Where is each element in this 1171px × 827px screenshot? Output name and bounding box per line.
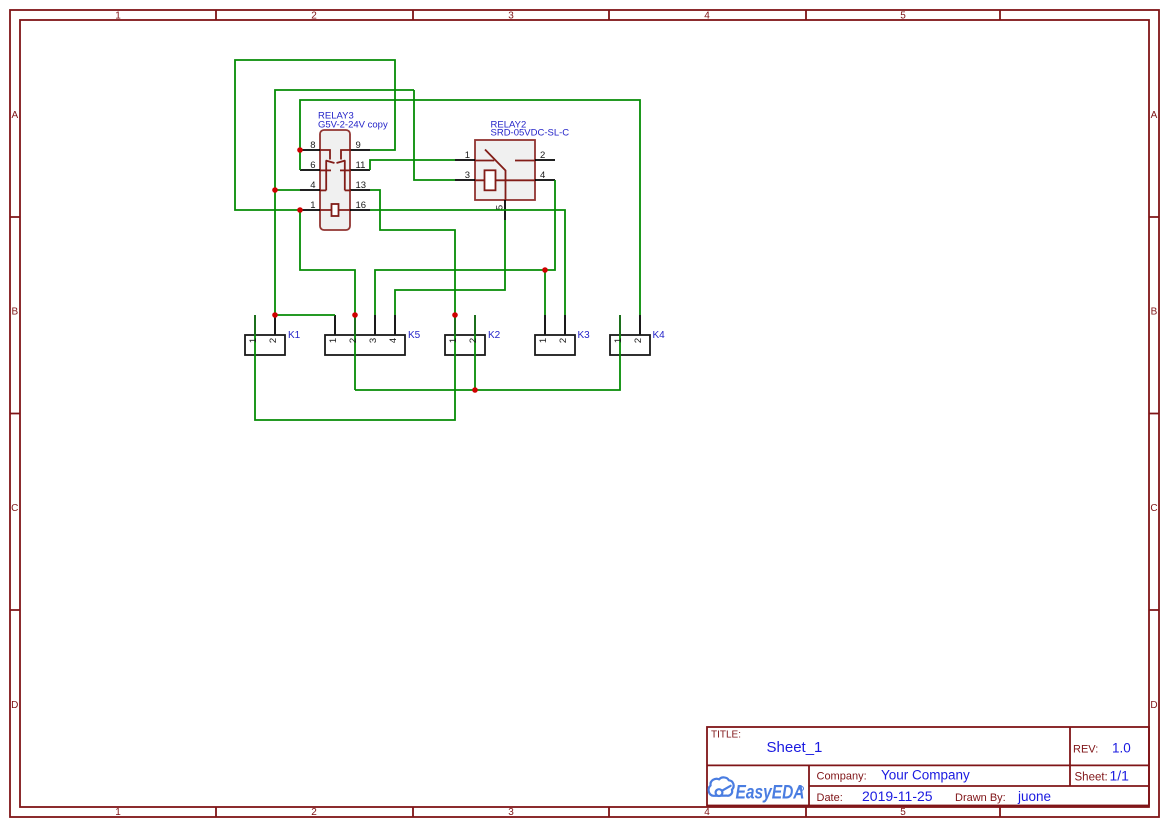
RELAY3 pin 11 bbox=[350, 169, 370, 171]
relay RELAY2 body bbox=[475, 140, 535, 200]
RELAY2 pin 3 bbox=[455, 179, 475, 181]
svg-text:B: B bbox=[1151, 307, 1158, 318]
svg-text:K1: K1 bbox=[288, 330, 301, 341]
RELAY3 pin numbers bbox=[310, 140, 366, 211]
RELAY3 pin 13 bbox=[350, 189, 370, 191]
wire pin4 stub bbox=[275, 189, 300, 191]
connector K1 bbox=[245, 315, 285, 355]
svg-text:2: 2 bbox=[348, 338, 359, 343]
svg-text:1.0: 1.0 bbox=[1112, 741, 1131, 756]
svg-text:SRD-05VDC-SL-C: SRD-05VDC-SL-C bbox=[491, 128, 570, 139]
svg-text:13: 13 bbox=[356, 180, 367, 191]
RELAY2 pin numbers bbox=[465, 150, 546, 210]
svg-text:2: 2 bbox=[311, 807, 317, 818]
svg-text:16: 16 bbox=[356, 200, 367, 211]
svg-text:REV:: REV: bbox=[1073, 744, 1098, 756]
connector pin numbers and labels bbox=[248, 330, 665, 343]
wire to RELAY2 pin3 bbox=[414, 90, 455, 180]
svg-text:D: D bbox=[11, 700, 18, 711]
svg-text:1: 1 bbox=[310, 200, 315, 211]
svg-text:Sheet:: Sheet: bbox=[1075, 772, 1108, 784]
connector K3 bbox=[535, 315, 575, 355]
RELAY3 pin 16 bbox=[350, 209, 370, 211]
connector K5 bbox=[325, 315, 405, 355]
svg-text:2: 2 bbox=[268, 338, 279, 343]
RELAY2 pin 5 bbox=[504, 200, 506, 220]
relay RELAY3 label bbox=[318, 111, 388, 131]
RELAY2 pin 2 bbox=[535, 159, 555, 161]
wire to K3 pin1 bbox=[544, 270, 546, 315]
wire bottom bus to K4 pin1 bbox=[355, 315, 620, 390]
svg-text:9: 9 bbox=[356, 140, 361, 151]
svg-text:2: 2 bbox=[311, 11, 317, 22]
svg-text:4: 4 bbox=[540, 170, 545, 181]
svg-text:6: 6 bbox=[310, 160, 315, 171]
wire K2 pin2 down bbox=[474, 315, 476, 390]
svg-text:1: 1 bbox=[328, 338, 339, 343]
RELAY2 pin 1 bbox=[455, 159, 475, 161]
svg-text:EasyEDA: EasyEDA bbox=[736, 782, 805, 804]
svg-text:Drawn By:: Drawn By: bbox=[955, 792, 1006, 804]
svg-text:Company:: Company: bbox=[817, 770, 867, 782]
RELAY3 coil bbox=[332, 204, 339, 216]
svg-text:Sheet_1: Sheet_1 bbox=[767, 739, 823, 756]
wire pin13 to K2 pin1 bbox=[370, 190, 455, 315]
wire pin16 to K3 pin2 bbox=[370, 210, 565, 315]
svg-text:8: 8 bbox=[310, 140, 315, 151]
svg-text:2: 2 bbox=[558, 338, 569, 343]
svg-text:A: A bbox=[1151, 110, 1158, 121]
EasyEDA logo bbox=[709, 777, 734, 795]
svg-text:1: 1 bbox=[115, 11, 121, 22]
svg-text:4: 4 bbox=[704, 11, 710, 22]
svg-text:3: 3 bbox=[508, 807, 514, 818]
svg-text:TITLE:: TITLE: bbox=[711, 730, 741, 741]
svg-text:4: 4 bbox=[388, 338, 399, 343]
svg-text:B: B bbox=[11, 307, 18, 318]
svg-text:11: 11 bbox=[356, 160, 366, 171]
svg-text:1: 1 bbox=[465, 150, 470, 161]
RELAY2 switch symbol bbox=[475, 150, 535, 201]
svg-text:5: 5 bbox=[900, 807, 906, 818]
svg-text:2019-11-25: 2019-11-25 bbox=[862, 788, 933, 804]
svg-text:1: 1 bbox=[538, 338, 549, 343]
svg-text:Your Company: Your Company bbox=[881, 768, 970, 783]
svg-text:2: 2 bbox=[540, 150, 545, 161]
relay RELAY3 body bbox=[320, 130, 350, 230]
svg-text:3: 3 bbox=[508, 11, 514, 22]
wire to K5 pin1 bbox=[275, 314, 335, 316]
RELAY2 pin 4 bbox=[535, 179, 555, 181]
svg-text:2: 2 bbox=[633, 338, 644, 343]
RELAY3 contact symbols bbox=[320, 150, 351, 210]
svg-text:juone: juone bbox=[1017, 789, 1051, 804]
connector K4 bbox=[610, 315, 650, 355]
svg-text:K3: K3 bbox=[578, 330, 591, 341]
svg-text:C: C bbox=[1150, 503, 1157, 514]
wire RELAY2 pin5 to K5 pin4 bbox=[395, 220, 505, 315]
svg-text:4: 4 bbox=[310, 180, 315, 191]
svg-text:3: 3 bbox=[368, 338, 379, 343]
RELAY3 pin 1 bbox=[300, 209, 320, 211]
RELAY2 coil bbox=[485, 170, 496, 190]
svg-text:1/1: 1/1 bbox=[1110, 768, 1130, 784]
RELAY3 pin 6 bbox=[300, 169, 320, 171]
relay RELAY2 label bbox=[491, 120, 570, 139]
svg-text:3: 3 bbox=[465, 170, 470, 181]
connector K2 bbox=[445, 315, 485, 355]
RELAY3 pin 4 bbox=[300, 189, 320, 191]
junction dots bbox=[272, 147, 548, 393]
svg-text:A: A bbox=[11, 110, 18, 121]
wire pin4 net vertical bbox=[275, 90, 414, 315]
svg-text:4: 4 bbox=[704, 807, 710, 818]
wire RELAY2 pin4 to K5 pin3 bbox=[375, 180, 555, 315]
wire pin8 net top bbox=[300, 100, 640, 315]
wires bbox=[235, 60, 640, 420]
title block bbox=[707, 727, 1149, 806]
svg-text:D: D bbox=[1150, 700, 1157, 711]
svg-text:K4: K4 bbox=[653, 330, 666, 341]
svg-text:Date:: Date: bbox=[817, 792, 843, 804]
wire over pin lead shading bbox=[255, 315, 620, 335]
svg-text:1: 1 bbox=[613, 338, 624, 343]
wire K1 pin1 to K2 pin1 bbox=[255, 315, 455, 420]
RELAY3 pin 8 bbox=[300, 149, 320, 151]
svg-text:G5V-2-24V copy: G5V-2-24V copy bbox=[318, 120, 388, 131]
wire pin9 to pin1 loop bbox=[235, 60, 395, 210]
svg-text:1: 1 bbox=[115, 807, 121, 818]
svg-text:2: 2 bbox=[468, 338, 479, 343]
svg-text:K2: K2 bbox=[488, 330, 501, 341]
svg-text:K5: K5 bbox=[408, 330, 421, 341]
svg-text:C: C bbox=[11, 503, 18, 514]
wire pin11 to RELAY2 pin1 bbox=[370, 160, 455, 170]
wire pin1 down to K5 pin2 bbox=[300, 210, 355, 390]
svg-text:5: 5 bbox=[900, 11, 906, 22]
svg-text:1: 1 bbox=[448, 338, 459, 343]
RELAY3 pin 9 bbox=[350, 149, 370, 151]
svg-text:1: 1 bbox=[248, 338, 259, 343]
